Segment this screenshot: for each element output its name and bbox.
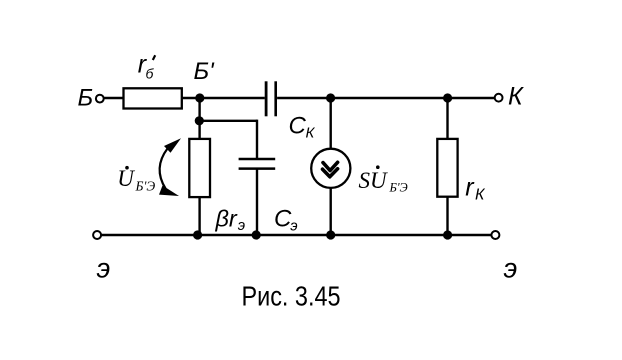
terminal K open circle (495, 94, 503, 102)
resistor r'Б body (124, 88, 182, 108)
svg-text:SU: SU (359, 168, 389, 193)
wire CK to K terminal (277, 97, 495, 99)
svg-text:βr: βr (215, 206, 238, 232)
wire CЭ to bottom rail (256, 169, 258, 235)
svg-text:э: э (238, 217, 245, 234)
wire current source to bottom rail (330, 187, 332, 235)
current source SU circle (311, 149, 350, 188)
svg-text:Рис. 3.45: Рис. 3.45 (242, 281, 341, 312)
svg-text:Б: Б (78, 84, 94, 111)
value label rK (465, 174, 486, 204)
value label SU Б'Э (359, 165, 408, 194)
svg-text:Б'Э: Б'Э (135, 178, 156, 193)
svg-text:C: C (274, 206, 292, 233)
terminal Э left open circle (93, 231, 101, 239)
wire down to CЭ (256, 120, 258, 160)
svg-text:э: э (290, 217, 297, 234)
wire top rail to current source (330, 98, 332, 150)
value label βrЭ (215, 206, 246, 235)
svg-text:б: б (146, 66, 155, 82)
terminal Э right open circle (491, 231, 499, 239)
wire R1 to CK (182, 97, 265, 99)
svg-text:К: К (306, 124, 316, 141)
svg-text:э: э (97, 253, 111, 284)
svg-text:C: C (289, 112, 307, 139)
svg-text:Б'Э: Б'Э (389, 180, 408, 194)
junction dot below Б' (195, 116, 204, 125)
terminal Б (base) open circle (96, 95, 104, 103)
value label U Б'Э (117, 166, 155, 193)
svg-text:U: U (117, 166, 135, 191)
junction dot bottom of current source (326, 230, 335, 239)
svg-text:Б': Б' (194, 58, 216, 85)
wire βrЭ to bottom rail (198, 197, 200, 235)
svg-text:К: К (475, 187, 486, 204)
junction dot bottom of βrЭ (193, 230, 202, 239)
capacitor CK left plate (265, 81, 268, 116)
bottom rail wire (101, 234, 491, 236)
junction node top of current source (326, 93, 335, 102)
capacitor CЭ top plate (239, 158, 276, 161)
value label r'Б (138, 50, 155, 81)
svg-text:э: э (504, 253, 518, 284)
junction dot bottom of rK (443, 230, 452, 239)
junction node top of rK (443, 93, 452, 102)
wire lower junction to CЭ branch (200, 120, 257, 122)
current source chevron 1 (323, 162, 338, 170)
resistor βrЭ body (189, 139, 210, 197)
junction dot bottom of CЭ (252, 230, 261, 239)
svg-text:К: К (508, 82, 524, 110)
resistor rK body (437, 139, 457, 197)
value label CK (289, 112, 316, 141)
capacitor CЭ bottom plate (239, 167, 276, 170)
wire Б terminal to R1 (104, 97, 124, 99)
wire top rail to rK (446, 98, 448, 140)
current source chevron 2 (323, 169, 338, 177)
node Б' junction dot (195, 93, 204, 102)
value label CЭ (274, 206, 298, 235)
capacitor CK right plate (274, 81, 277, 116)
wire rK to bottom rail (446, 197, 448, 235)
wire Б' down to lower junction (198, 98, 200, 140)
voltage arrow U Б'Э curved double arrow (159, 138, 181, 196)
